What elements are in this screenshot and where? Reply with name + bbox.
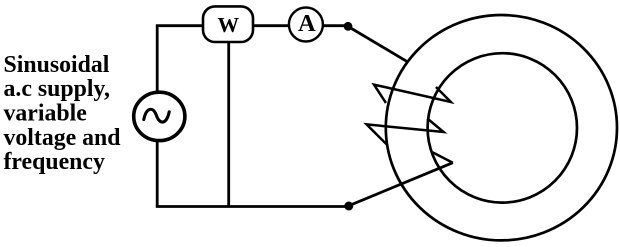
winding turn 2 <box>367 119 444 146</box>
svg-text:Sinusoidal: Sinusoidal <box>4 52 110 78</box>
wire: top diagonal from node to ring <box>349 27 408 62</box>
wire: bottom rail <box>156 205 346 208</box>
ring specimen outer circle <box>386 15 617 240</box>
wire: bottom diagonal from node to winding end R3 <box>350 163 453 206</box>
winding turn 1 <box>374 85 451 103</box>
wire: left vertical upper + top rail to wattmeter <box>157 26 203 92</box>
ammeter A <box>289 8 323 42</box>
wire: left vertical lower (source to bottom rail) <box>156 141 159 207</box>
svg-text:frequency: frequency <box>4 149 105 175</box>
sine symbol of AC source <box>144 109 169 122</box>
svg-text:variable: variable <box>4 101 87 127</box>
node: top junction dot <box>344 22 353 31</box>
label: supply description text <box>4 52 121 175</box>
wire: wattmeter drop to bottom rail <box>227 42 230 207</box>
svg-text:a.c supply,: a.c supply, <box>4 76 111 102</box>
node: bottom junction dot <box>344 202 353 211</box>
wire: ammeter to top node <box>323 24 345 27</box>
ring specimen inner circle <box>428 53 577 202</box>
svg-text:A: A <box>298 10 316 37</box>
AC source V1 <box>134 92 185 140</box>
svg-text:W: W <box>218 13 240 37</box>
wire: wattmeter to ammeter <box>253 24 289 27</box>
winding turn 3 <box>432 152 452 162</box>
wattmeter W <box>203 6 253 42</box>
svg-text:voltage and: voltage and <box>4 125 121 151</box>
